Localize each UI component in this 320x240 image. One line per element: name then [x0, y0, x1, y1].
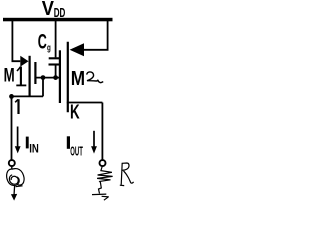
- svg-text:M: M: [4, 64, 15, 86]
- junction node: diode connection to gate: [41, 75, 46, 80]
- svg-text:K: K: [70, 101, 80, 123]
- wire: node 1 down to input terminal: [11, 96, 13, 160]
- wire: VDD rail down to M1 source (left branch): [12, 21, 20, 61]
- wire: node K down to output terminal: [101, 103, 103, 161]
- hand-drawn ground symbol: [92, 194, 109, 200]
- svg-text:OUT: OUT: [70, 145, 83, 159]
- transistor M2 channel bar: [67, 42, 69, 113]
- hand-written label R: [120, 163, 134, 186]
- transistor M1 channel bar: [29, 56, 31, 97]
- current arrow IIN (down): [15, 127, 21, 154]
- capacitor Cg top plate: [49, 57, 61, 59]
- label IIN: I: [26, 137, 29, 149]
- hand-drawn resistor R (zigzag, output branch): [97, 166, 113, 193]
- svg-text:g: g: [47, 42, 51, 53]
- wire: shared gate node (M1 gate to M2 gate): [35, 77, 60, 79]
- transistor M1 gate bar: [34, 62, 36, 84]
- power rail VDD: [3, 18, 113, 22]
- M2 source arrow (points into transistor): [70, 43, 84, 56]
- svg-text:M: M: [71, 67, 85, 90]
- svg-text:C: C: [38, 29, 47, 53]
- label M2: subscript 2 (handwritten): [87, 72, 104, 83]
- wire: node 1 horizontal (M1 drain): [12, 95, 44, 97]
- wire: node K horizontal (M2 drain): [67, 102, 103, 104]
- current arrow IOUT (down): [91, 131, 97, 154]
- transistor M2 gate bar: [59, 50, 61, 103]
- hand-drawn current source circle (scribble, input branch): [7, 169, 24, 186]
- label IOUT: I: [67, 136, 70, 149]
- hand-drawn current arrow below source: [11, 186, 23, 201]
- junction node: Cg to gate wire: [53, 75, 58, 80]
- junction node 1: [9, 94, 14, 99]
- capacitor Cg bottom plate: [49, 63, 61, 65]
- wire: diode connection down to node 1: [42, 78, 44, 97]
- label node 1: [15, 99, 18, 114]
- svg-text:IN: IN: [29, 143, 39, 156]
- capacitor Cg bottom lead to gate node: [55, 66, 57, 78]
- wire: VDD rail down to M2 source (right branch): [84, 21, 108, 50]
- svg-text:V: V: [42, 0, 54, 20]
- net VDD label: [42, 0, 66, 21]
- label M1: subscript 1 (serif style): [16, 67, 26, 86]
- capacitor Cg top lead from VDD: [55, 21, 57, 57]
- wire stub below input terminal: [11, 166, 13, 169]
- output terminal (open circle): [100, 160, 106, 166]
- M1 source arrow (points into transistor): [20, 56, 28, 67]
- input terminal (open circle): [9, 160, 15, 166]
